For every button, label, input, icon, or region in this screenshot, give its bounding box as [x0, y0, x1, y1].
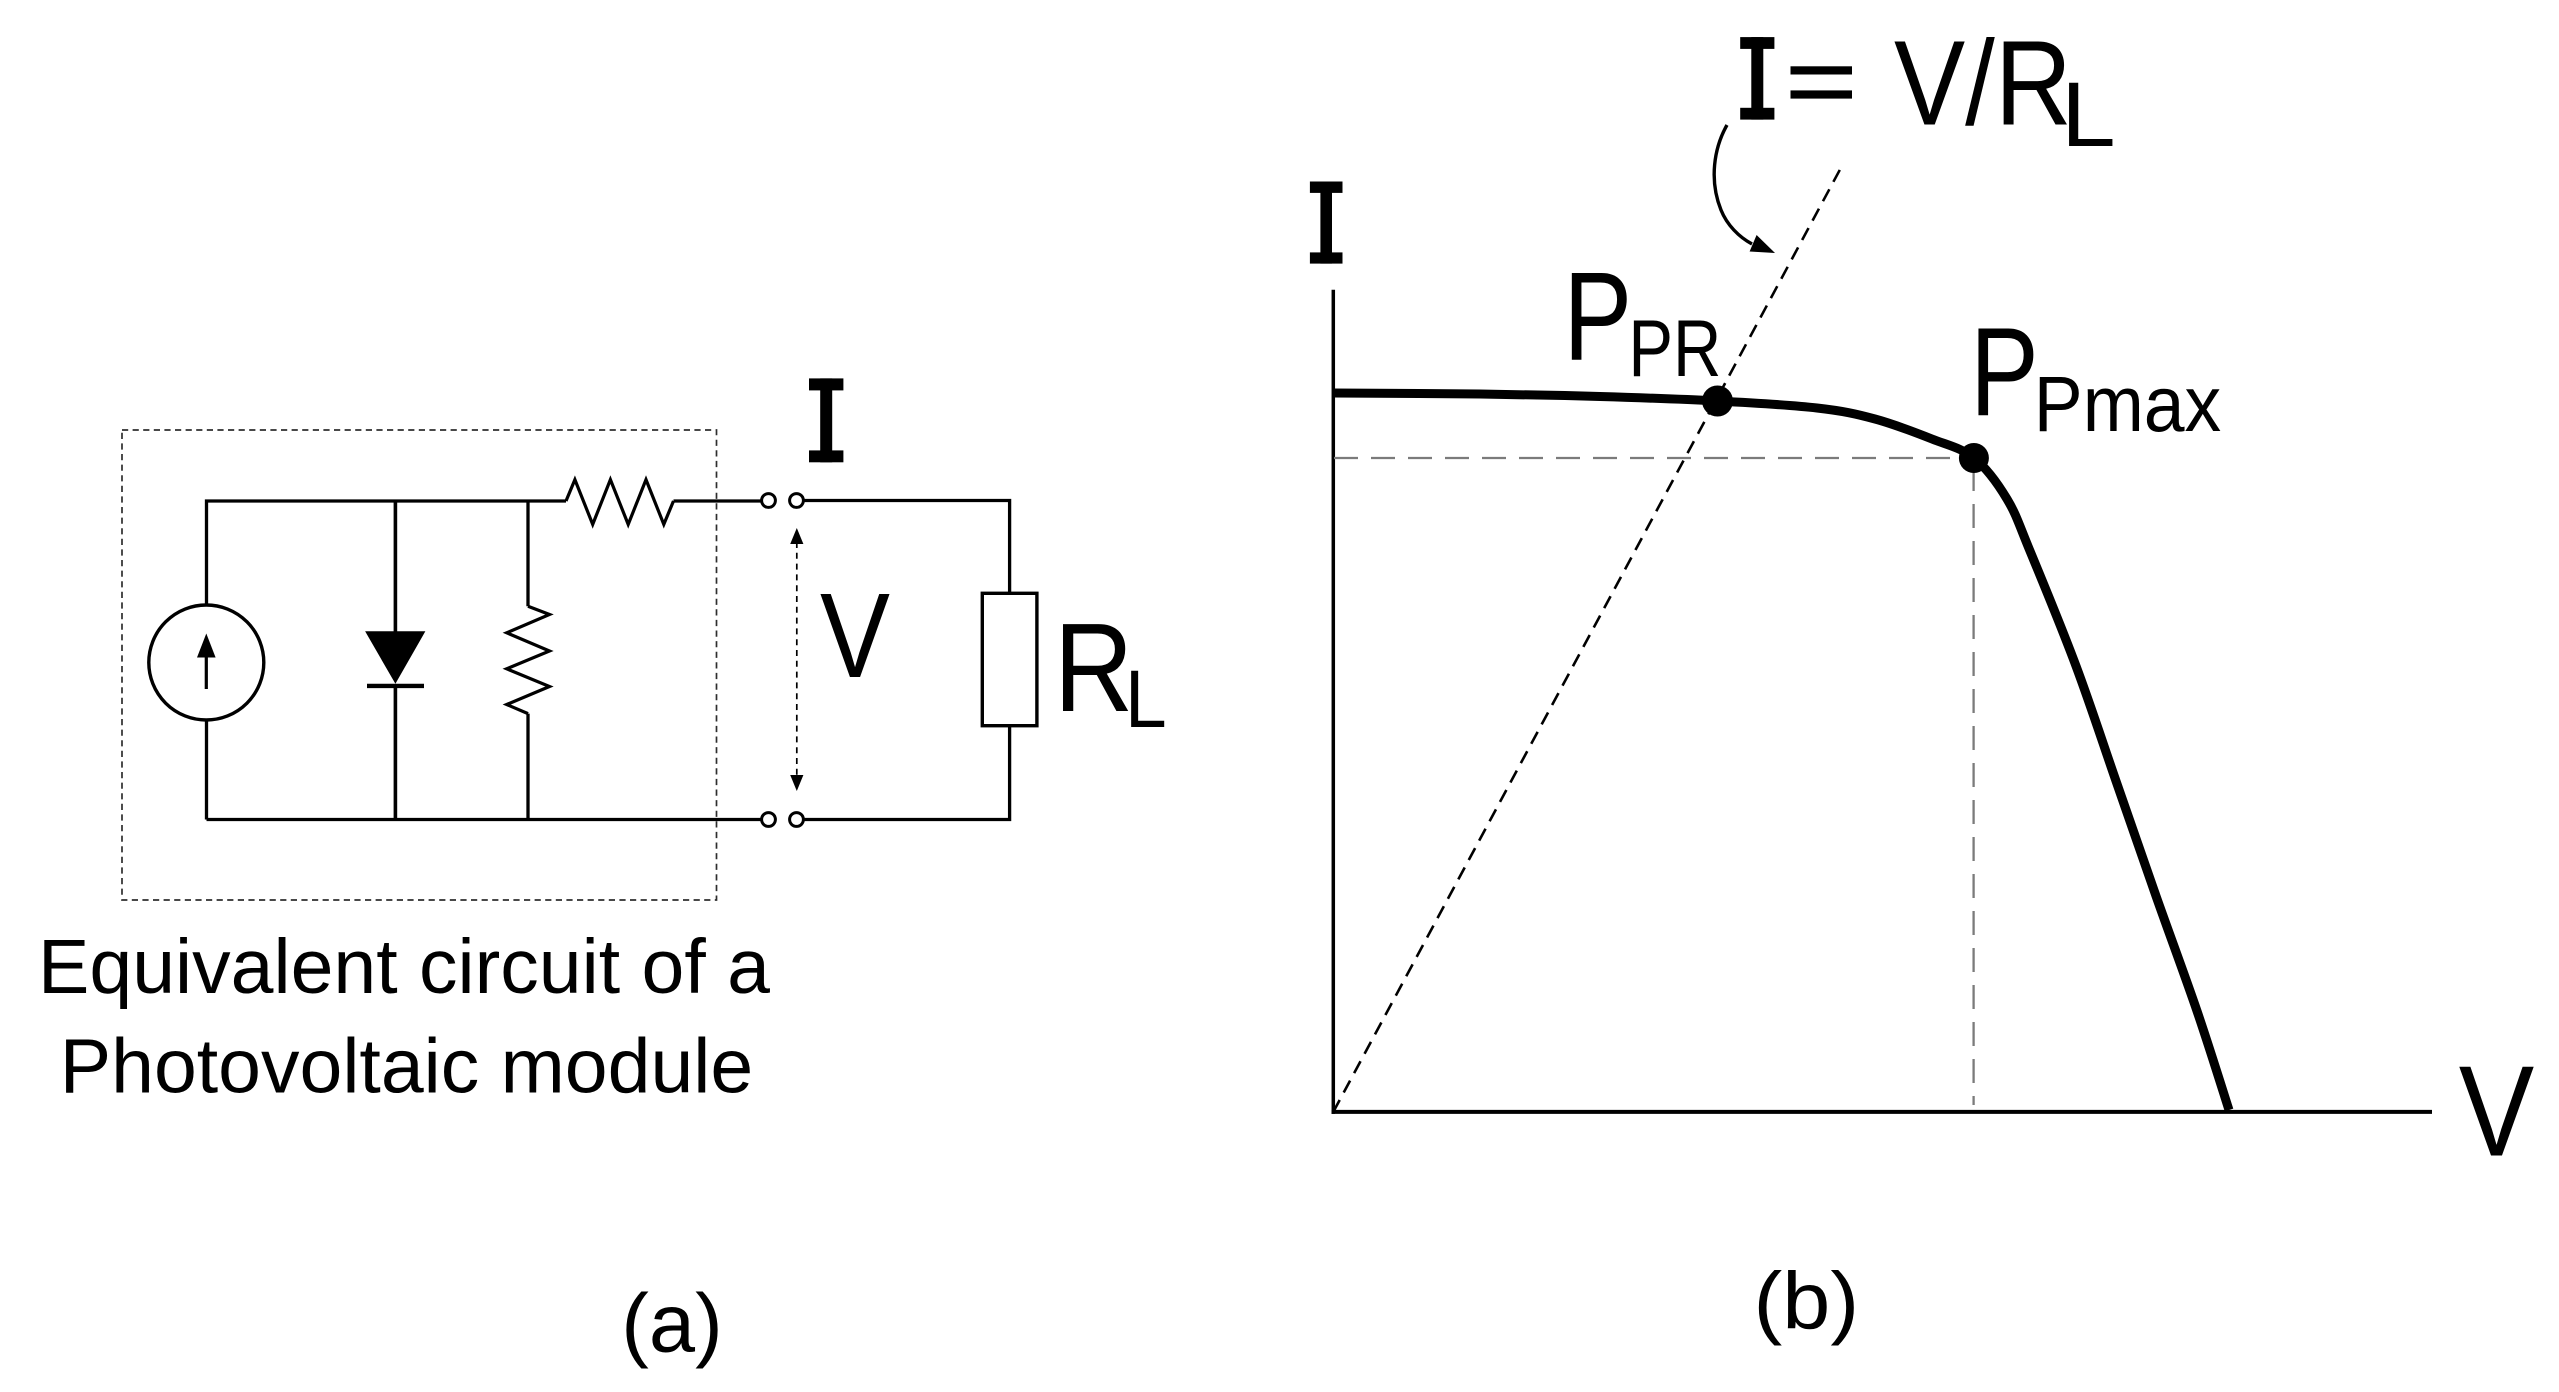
svg-text:R: R — [1054, 597, 1133, 738]
wire (bottom rail) — [207, 818, 763, 821]
resistor Rsh (shunt, vertical zigzag) — [507, 606, 550, 713]
dashed guide vertical (Vmp level) — [1972, 467, 1974, 1105]
dashed guide horizontal (Imp level) — [1334, 457, 1968, 459]
wire (load loop bottom) — [804, 726, 1010, 820]
svg-text:V: V — [2459, 1040, 2534, 1184]
wire (top rail from current source to series resistor) — [207, 501, 567, 606]
wire (shunt resistor branch bottom) — [526, 714, 529, 820]
wire (series resistor to + terminal) — [674, 499, 762, 502]
V measurement arrow (dashed, double headed) — [790, 528, 803, 791]
svg-text:(a): (a) — [621, 1277, 722, 1370]
diode D — [366, 632, 425, 686]
I-V characteristic curve — [1333, 393, 2229, 1110]
dashed enclosure box (photovoltaic module boundary) — [122, 430, 717, 900]
maximum power point P_Pmax (dot) — [1959, 443, 1989, 473]
svg-text:Photovoltaic module: Photovoltaic module — [60, 1023, 753, 1109]
svg-text:L: L — [1125, 654, 1167, 745]
load line I = V/RL (fine dashed) — [1333, 165, 1842, 1112]
svg-text:Equivalent circuit of a: Equivalent circuit of a — [38, 924, 770, 1010]
svg-text:V: V — [820, 567, 890, 703]
label I (output current, serif-style capital I) — [809, 378, 843, 462]
resistor Rs (series, horizontal zigzag) — [566, 480, 674, 525]
svg-text:PR: PR — [1628, 304, 1721, 394]
wire (diode branch cathode) — [394, 686, 398, 820]
terminal node + (top pair) — [762, 494, 776, 508]
y-axis (current axis) — [1332, 290, 1336, 1114]
title label I (serif-style capital I) — [1740, 37, 1774, 120]
wire (diode branch anode) — [394, 501, 398, 633]
curved arrow pointing to load line — [1714, 125, 1775, 253]
svg-text:P: P — [1563, 246, 1632, 387]
current source Iph — [149, 605, 264, 720]
wire (shunt resistor branch top) — [526, 501, 529, 606]
title equals sign — [1791, 66, 1853, 98]
svg-text:V/R: V/R — [1894, 15, 2072, 151]
x-axis (voltage axis) — [1332, 1110, 2433, 1114]
terminal node - (bottom pair) — [762, 813, 776, 827]
wire (load loop top) — [804, 501, 1010, 594]
svg-text:P: P — [1970, 301, 2039, 442]
svg-text:(b): (b) — [1754, 1257, 1860, 1347]
axis label I (serif-style capital I) — [1310, 182, 1343, 264]
svg-text:L: L — [2061, 64, 2116, 166]
wire (left rail below current source to bottom rail) — [205, 720, 208, 820]
resistor RL (load, rectangle body) — [982, 593, 1037, 725]
operating point P_PR (dot) — [1702, 386, 1733, 417]
svg-text:Pmax: Pmax — [2034, 359, 2221, 448]
